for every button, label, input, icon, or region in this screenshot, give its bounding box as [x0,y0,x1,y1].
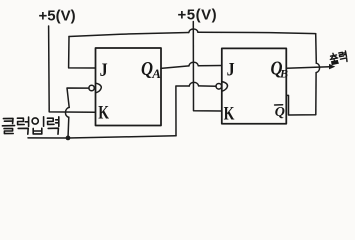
hop over VCC2 line [189,29,198,33]
svg-text:+5(V): +5(V) [178,6,218,23]
svg-text:Q: Q [141,58,153,80]
wire feedback right vertical [315,34,318,63]
svg-text:A: A [151,66,161,81]
syllable 출 [332,53,334,54]
pin Qbar label of U2 [275,105,285,120]
clock bubble of U2 [216,84,222,90]
wire clock to U2 bubble [199,85,216,87]
syllable 클 [3,118,13,123]
syllable 럭 [17,118,24,124]
wire VCC2 to K of U2 [193,22,221,112]
clock input label (Hangul 클럭입력) [2,117,58,134]
arrowhead output [329,64,335,70]
pin QA label of U1 [141,58,161,81]
svg-text:J: J [100,60,108,81]
svg-text:J: J [227,60,235,81]
flip-flop U2 box [222,48,286,123]
wire feedback top run [69,33,189,37]
hop over K wire of U1 [65,107,69,117]
syllable 입 [32,118,38,124]
edge-trigger mark of U2 [222,82,227,92]
syllable 력 [47,118,54,124]
svg-text:K: K [224,104,235,125]
hop over QB output wire [316,63,319,72]
svg-text:Q: Q [275,105,285,120]
hop clock wire over VCC2 line [189,82,198,86]
flip-flop U1 box [96,48,162,126]
wire clock up to U1 bubble [67,88,89,107]
output label (Hangul 출력, rotated) [329,51,347,65]
edge-trigger mark of U1 [96,83,102,93]
wire feedback down to Qbar step [287,73,317,115]
wire clock input bottom run [28,136,176,138]
wire QB output [287,67,330,68]
svg-text:K: K [98,103,109,124]
wire QA to J of U2 [161,66,189,69]
syllable 력 [339,51,348,63]
wire feedback top run right [198,32,316,33]
wire clock to U1 vertical [67,117,70,138]
overbar of Qbar [275,104,283,106]
junction clock node [66,136,71,141]
pin QB label of U2 [271,57,289,80]
wire clock to U2 from bottom [176,86,189,136]
svg-text:+5(V): +5(V) [39,8,76,25]
hop QA wire over VCC2 line [189,62,198,66]
wire VCC1 to K of U1 [49,26,95,112]
wire J of U1 from top feedback [69,37,96,69]
wire QA to J of U2 right part [198,65,221,67]
clock bubble of U1 [89,85,94,90]
